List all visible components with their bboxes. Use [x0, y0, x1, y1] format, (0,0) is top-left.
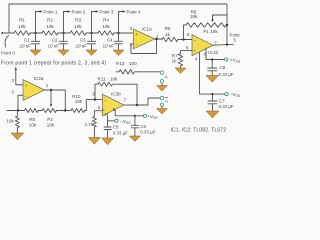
wire IC2b pin5 to 4.7k — [94, 111, 102, 117]
svg-text:10k: 10k — [47, 122, 55, 127]
wire IC2a pin2 to bottom row — [18, 95, 23, 110]
terminal +Vss top — [225, 58, 228, 61]
svg-text:R8: R8 — [29, 117, 35, 122]
capacitor C6 — [131, 116, 138, 136]
svg-text:C3: C3 — [80, 38, 86, 43]
wire IC2b output — [124, 98, 160, 105]
capacitor C2 — [60, 33, 68, 50]
svg-text:Point 4: Point 4 — [127, 9, 141, 14]
svg-text:10k: 10k — [18, 24, 26, 29]
potentiometer P2 — [42, 109, 56, 113]
svg-text:4.7k: 4.7k — [84, 122, 93, 127]
svg-text:A: A — [165, 98, 168, 103]
wire IC2b pin4 to -Vss — [108, 113, 115, 121]
svg-text:10k: 10k — [6, 119, 14, 124]
svg-text:0.33 µF: 0.33 µF — [219, 72, 234, 77]
svg-text:R11: R11 — [98, 77, 107, 82]
svg-text:−: − — [25, 94, 28, 99]
point 0 arc and label — [5, 36, 9, 48]
svg-text:R5: R5 — [165, 26, 171, 31]
wire P2 wiper from output — [50, 90, 52, 104]
ground C1 — [30, 50, 41, 56]
svg-text:10k: 10k — [102, 24, 110, 29]
svg-text:+: + — [193, 48, 196, 53]
svg-text:+: + — [25, 83, 28, 88]
svg-text:18k: 18k — [190, 14, 198, 19]
op-amp IC1b — [192, 35, 213, 56]
svg-text:IC2b: IC2b — [111, 92, 121, 97]
resistor R8 — [25, 109, 39, 113]
svg-text:C6: C6 — [140, 124, 146, 129]
svg-text:A: A — [165, 75, 168, 80]
ground A — [157, 86, 168, 92]
node point1 — [34, 32, 36, 34]
svg-text:−: − — [104, 97, 107, 102]
svg-text:Point 3: Point 3 — [100, 9, 114, 14]
svg-text:10k: 10k — [110, 77, 118, 82]
terminal A ground pair — [160, 80, 163, 83]
svg-text:Point 2: Point 2 — [72, 9, 86, 14]
svg-text:0.33 µF: 0.33 µF — [219, 104, 234, 109]
capacitor C5 — [104, 121, 111, 138]
svg-text:From point 1 (repeat for point: From point 1 (repeat for points 2, 3, an… — [1, 61, 106, 67]
svg-text:10k: 10k — [46, 24, 54, 29]
svg-text:C4: C4 — [107, 38, 113, 43]
svg-text:10k: 10k — [29, 122, 37, 127]
resistor R4 — [98, 31, 114, 35]
svg-text:C5: C5 — [113, 125, 119, 130]
wire IC1b output to point5 column — [213, 44, 234, 47]
svg-text:IC2a: IC2a — [34, 76, 44, 81]
svg-text:10 nF: 10 nF — [20, 44, 32, 49]
wire bottom row — [7, 100, 102, 111]
node point2 — [62, 32, 64, 34]
ground 4.7k — [88, 138, 100, 145]
svg-text:0.33 µF: 0.33 µF — [113, 130, 128, 135]
svg-text:IC1b: IC1b — [208, 50, 218, 55]
node IC1b pin6 — [182, 38, 184, 40]
resistor R10 — [71, 109, 85, 113]
wire IC1b pin4 to -Vss — [200, 52, 225, 94]
terminal A — [160, 71, 163, 74]
node point4 — [117, 32, 119, 34]
svg-text:+: + — [135, 32, 138, 37]
ground C2 — [58, 50, 69, 56]
terminal -Vss bottom — [115, 119, 118, 122]
op-amp IC2b — [102, 94, 124, 116]
svg-text:R4: R4 — [103, 18, 109, 23]
svg-text:R2: R2 — [47, 18, 53, 23]
ground C6 — [129, 136, 140, 142]
wire riser to R6 row — [184, 25, 187, 40]
svg-text:1k: 1k — [172, 59, 178, 64]
op-amp IC2a — [23, 80, 45, 101]
resistor R2 — [42, 31, 58, 35]
svg-text:1k: 1k — [165, 32, 171, 37]
svg-text:C7: C7 — [219, 99, 225, 104]
resistor R11 — [98, 82, 137, 105]
capacitor C4 — [115, 33, 123, 50]
node IC2b pin6 — [94, 98, 96, 100]
svg-text:R1: R1 — [19, 18, 25, 23]
ground C3 — [86, 50, 97, 56]
ground C4 — [113, 50, 124, 56]
resistor R3 — [70, 31, 86, 35]
capacitor C3 — [88, 33, 96, 50]
svg-text:0.33 µF: 0.33 µF — [140, 129, 155, 134]
svg-text:Point 0: Point 0 — [1, 51, 15, 56]
svg-text:10 nF: 10 nF — [76, 44, 88, 49]
wire ladder row — [2, 32, 133, 34]
svg-text:P1 10k: P1 10k — [203, 29, 218, 34]
ground C5 — [102, 138, 114, 145]
svg-text:P2: P2 — [47, 117, 53, 122]
svg-text:C8: C8 — [220, 65, 226, 70]
ground Abar — [157, 109, 168, 115]
capacitor C7 — [208, 94, 217, 111]
resistor R6 — [186, 23, 206, 27]
wire top feedback frame — [9, 4, 227, 45]
ground R7 — [175, 68, 186, 74]
svg-text:R3: R3 — [75, 18, 81, 23]
resistor 4.7k — [92, 117, 96, 138]
capacitor C8 — [208, 60, 217, 76]
wire IC1a pin2 feedback — [131, 39, 157, 54]
svg-text:−: − — [194, 38, 197, 43]
resistor 10k to ground (left) — [15, 111, 19, 134]
wire IC1b pin8 to +Vss — [206, 49, 225, 60]
svg-text:C2: C2 — [52, 38, 58, 43]
ground C8 — [206, 76, 219, 83]
svg-text:10k: 10k — [75, 99, 83, 104]
wire IC2b pin8 to +Vss — [115, 110, 143, 116]
svg-text:10k: 10k — [74, 24, 82, 29]
terminal Abar — [160, 96, 163, 99]
node P1 right — [226, 24, 228, 26]
capacitor C1 — [32, 33, 40, 50]
terminal -Vss top — [225, 93, 228, 96]
svg-text:R13: R13 — [116, 61, 125, 66]
svg-text:Point 1: Point 1 — [44, 9, 58, 14]
svg-text:100: 100 — [129, 61, 137, 66]
wire IC1a output — [155, 38, 162, 40]
ground C7 — [206, 111, 219, 118]
svg-text:IC1a: IC1a — [142, 26, 152, 31]
op-amp IC1a — [133, 29, 155, 49]
wire R5 to IC1b — [178, 39, 192, 41]
wire IC2a output — [45, 90, 66, 111]
svg-text:−: − — [135, 42, 138, 47]
ground 10k — [11, 133, 23, 140]
svg-text:10 nF: 10 nF — [103, 44, 115, 49]
svg-text:10 nF: 10 nF — [48, 44, 60, 49]
wire input arrow IC2a — [15, 67, 17, 70]
potentiometer P1 — [206, 23, 226, 27]
node point3 — [90, 32, 92, 34]
svg-text:IC1, IC2: TL082, TL072: IC1, IC2: TL082, TL072 — [171, 127, 227, 133]
terminal Abar ground pair — [160, 103, 163, 106]
resistor R7 — [178, 54, 182, 69]
wire R11 column left — [95, 84, 98, 99]
resistor R5 — [162, 37, 178, 41]
resistor R1 — [14, 31, 30, 35]
wire IC1b pin5 to R7 — [181, 51, 193, 54]
terminal +Vss bottom — [143, 114, 146, 117]
svg-text:C1: C1 — [24, 38, 30, 43]
